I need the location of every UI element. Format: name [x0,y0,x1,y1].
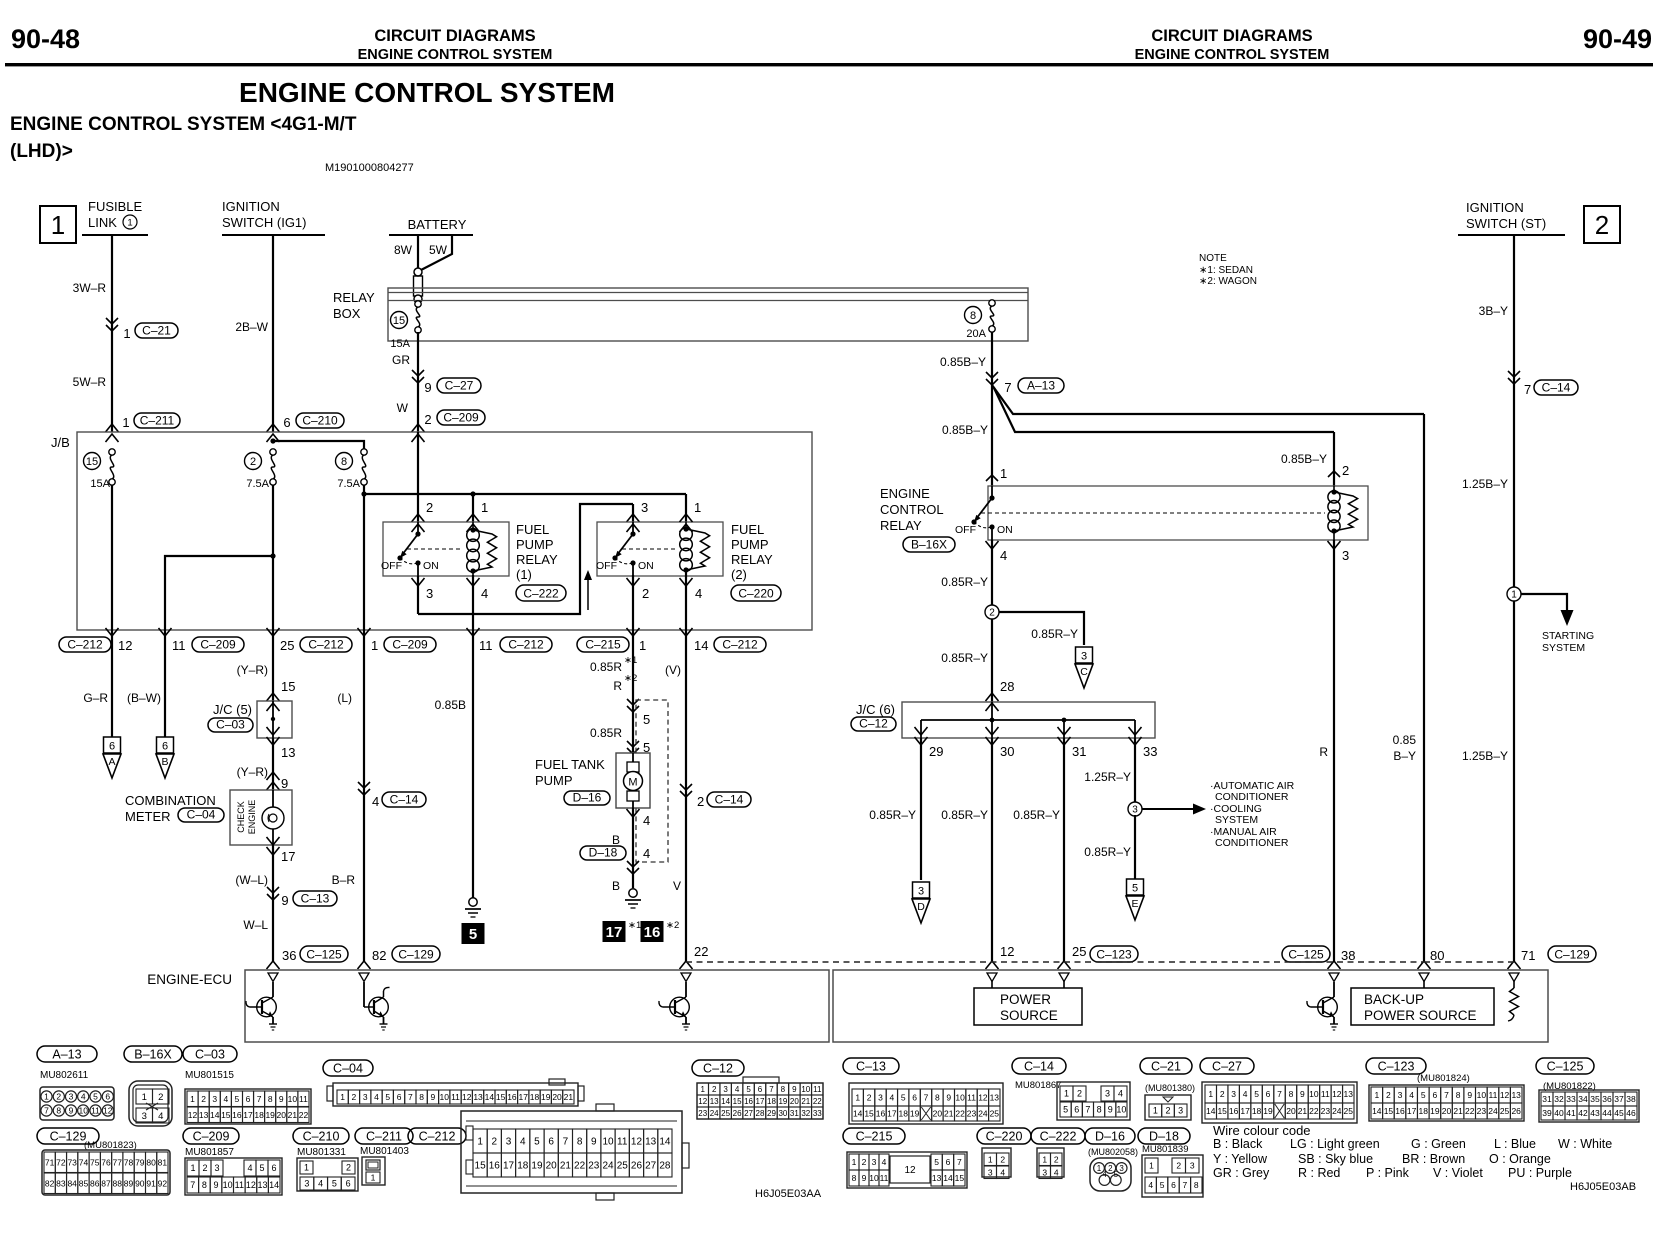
svg-text:ON: ON [423,560,439,572]
svg-text:FUEL: FUEL [731,522,764,537]
svg-text:2: 2 [712,1085,717,1094]
svg-text:0.85B: 0.85B [435,698,466,712]
svg-text:C–212: C–212 [419,1130,456,1144]
wire colour code [1213,1123,1612,1180]
svg-text:3: 3 [1081,651,1087,663]
svg-text:3: 3 [1398,1090,1403,1100]
svg-text:3: 3 [212,1094,217,1104]
svg-text:9: 9 [792,1085,797,1094]
svg-text:18: 18 [254,1110,264,1120]
connector C-220 capsule [731,585,781,601]
svg-text:17: 17 [1407,1106,1417,1116]
svg-text:MU801331: MU801331 [297,1147,346,1158]
branch to starting system [1521,594,1574,626]
connector C-129 pinout [37,1128,170,1195]
svg-text:2: 2 [424,412,431,427]
J/C6 exit 30 to ECU pin 12 [941,727,1014,969]
svg-text:3: 3 [214,1163,219,1173]
fuse 8 7.5A in J/B [336,449,368,490]
wire W into FPR1 pin 2 [412,432,434,532]
svg-text:31: 31 [790,1109,799,1118]
svg-text:7: 7 [563,1137,569,1148]
svg-text:CIRCUIT DIAGRAMS: CIRCUIT DIAGRAMS [1151,27,1312,45]
svg-text:12: 12 [246,1180,256,1190]
svg-text:1: 1 [142,1092,147,1103]
svg-text:7: 7 [1085,1105,1090,1115]
svg-text:2: 2 [697,794,704,809]
svg-text:3: 3 [723,1085,728,1094]
svg-text:3: 3 [988,1167,993,1177]
svg-text:C–13: C–13 [301,892,330,906]
svg-text:8: 8 [419,1092,424,1102]
svg-text:8: 8 [935,1093,940,1103]
svg-text:15: 15 [496,1092,506,1102]
svg-text:26: 26 [1511,1106,1521,1116]
svg-text:C–210: C–210 [303,1130,340,1144]
svg-text:9: 9 [946,1093,951,1103]
svg-text:BR : Brown: BR : Brown [1402,1152,1465,1166]
svg-text:72: 72 [56,1157,66,1167]
svg-text:5: 5 [385,1092,390,1102]
svg-text:14: 14 [853,1109,863,1119]
ECU box left page [245,970,829,1042]
svg-text:12: 12 [904,1165,916,1176]
svg-text:C–220: C–220 [986,1130,1023,1144]
connector C-209 pinout [183,1128,282,1195]
svg-text:23: 23 [588,1161,600,1172]
wire V to ECU pin 22 [665,630,751,969]
svg-text:C–125: C–125 [1288,948,1324,962]
svg-text:24: 24 [978,1109,988,1119]
connector C-125 pinout [1536,1058,1639,1122]
svg-text:12: 12 [631,1137,643,1148]
svg-text:31: 31 [1072,744,1086,759]
svg-text:26: 26 [631,1161,643,1172]
ECU transistor pin22 [659,982,690,1030]
svg-text:17: 17 [606,924,623,941]
fuel pump relay 2 box [597,522,723,576]
svg-text:6: 6 [162,741,168,753]
svg-text:6: 6 [758,1085,763,1094]
svg-text:15: 15 [955,1173,965,1183]
svg-text:RELAY: RELAY [516,552,558,567]
svg-text:C–14: C–14 [715,793,744,807]
svg-text:11: 11 [235,1180,244,1190]
svg-text:C–21: C–21 [142,324,171,338]
svg-text:5: 5 [1114,1170,1119,1179]
svg-text:C–215: C–215 [856,1130,893,1144]
ECU transistor pin38 [1307,982,1338,1030]
svg-text:9: 9 [591,1137,597,1148]
svg-text:28: 28 [756,1109,765,1118]
svg-text:10: 10 [955,1093,965,1103]
svg-text:RELAY: RELAY [880,518,922,533]
svg-text:17: 17 [503,1161,515,1172]
svg-text:CONDITIONER: CONDITIONER [1215,837,1289,849]
svg-text:2: 2 [867,1093,872,1103]
svg-text:21: 21 [1453,1106,1463,1116]
svg-text:PUMP: PUMP [535,773,573,788]
svg-text:14: 14 [721,1097,730,1106]
svg-text:ENGINE CONTROL SYSTEM: ENGINE CONTROL SYSTEM [1135,47,1330,63]
svg-text:ENGINE CONTROL SYSTEM: ENGINE CONTROL SYSTEM [239,77,615,108]
svg-text:25: 25 [1344,1106,1354,1116]
junction connector J/C(6) [902,702,1155,738]
svg-text:22: 22 [955,1109,965,1119]
svg-text:MU801515: MU801515 [185,1070,234,1081]
svg-text:92: 92 [158,1178,168,1188]
svg-text:90: 90 [135,1178,145,1188]
svg-text:(W–L): (W–L) [235,873,268,887]
svg-text:3: 3 [142,1111,147,1122]
svg-text:C–21: C–21 [1151,1060,1181,1074]
svg-text:0.85R–Y: 0.85R–Y [941,575,988,589]
svg-text:2: 2 [1176,1161,1181,1171]
svg-text:11: 11 [299,1094,308,1104]
drawing code AB [1570,1181,1636,1193]
svg-text:C–03: C–03 [216,718,245,732]
svg-text:1: 1 [1374,1090,1379,1100]
svg-text:G : Green: G : Green [1411,1137,1466,1151]
svg-text:25: 25 [1500,1106,1510,1116]
svg-text:(1): (1) [516,567,532,582]
svg-text:1.25R–Y: 1.25R–Y [1084,770,1131,784]
wire fusible link 3W-R/5W-R [106,235,119,442]
connector C-21 pinout [1140,1058,1195,1120]
svg-text:0.85R–Y: 0.85R–Y [869,808,916,822]
chassis ground under pump [625,889,641,908]
svg-text:PUMP: PUMP [516,537,554,552]
svg-text:87: 87 [101,1178,111,1188]
svg-text:13: 13 [1511,1090,1521,1100]
svg-text:37: 37 [1614,1094,1624,1104]
svg-text:20: 20 [1442,1106,1452,1116]
svg-text:CIRCUIT DIAGRAMS: CIRCUIT DIAGRAMS [374,27,535,45]
svg-text:C–125: C–125 [306,948,342,962]
svg-text:27: 27 [645,1161,657,1172]
svg-text:FUEL: FUEL [516,522,549,537]
svg-text:19: 19 [1430,1106,1440,1116]
svg-text:10: 10 [1477,1090,1487,1100]
svg-text:14: 14 [485,1092,495,1102]
J/B exit 1 C-215 [577,628,646,653]
svg-text:90-48: 90-48 [11,24,80,54]
svg-text:O : Orange: O : Orange [1489,1152,1551,1166]
connector C-212 pinout [408,1104,689,1200]
connector C-215 pinout [843,1128,967,1188]
svg-text:6: 6 [346,1179,351,1189]
note sedan/wagon [1199,253,1257,287]
svg-text:15: 15 [281,679,295,694]
check engine text [236,800,257,835]
svg-text:29: 29 [929,744,943,759]
connector C-210 pinout [293,1128,358,1191]
svg-text:C–123: C–123 [1378,1060,1415,1074]
svg-text:1: 1 [190,1094,195,1104]
svg-text:10: 10 [1309,1089,1319,1099]
svg-text:C–211: C–211 [366,1130,402,1144]
svg-text:4: 4 [223,1094,228,1104]
J/C(5) label [208,702,253,732]
J/C6 exit 31 to ECU pin 25 [1013,727,1086,969]
svg-text:23: 23 [1477,1106,1487,1116]
svg-text:6: 6 [548,1137,554,1148]
svg-text:27: 27 [744,1109,753,1118]
svg-text:MU801867: MU801867 [1015,1080,1061,1091]
svg-text:15: 15 [393,315,405,327]
starting system text [1542,630,1594,654]
svg-text:5: 5 [1132,883,1138,895]
svg-text:8: 8 [577,1137,583,1148]
svg-text:(L): (L) [337,691,352,705]
combination meter box [230,790,292,845]
svg-text:44: 44 [1602,1108,1612,1118]
wire FPR1 pin 1 [467,494,489,532]
svg-text:19: 19 [778,1097,787,1106]
svg-text:1: 1 [1153,1106,1158,1116]
svg-text:1: 1 [371,638,378,653]
svg-text:(Y–R): (Y–R) [237,765,268,779]
svg-text:13: 13 [1344,1089,1354,1099]
svg-text:C–13: C–13 [856,1060,886,1074]
svg-text:5: 5 [1254,1089,1259,1099]
svg-text:C–222: C–222 [523,587,559,601]
wire G-R to triangle A [83,630,121,778]
svg-text:8W: 8W [394,243,413,257]
svg-text:9: 9 [1467,1090,1472,1100]
svg-text:23: 23 [698,1109,707,1118]
FPR1 pin 3 wire to FPR2 pin 3 [412,500,649,614]
svg-text:(MU801380): (MU801380) [1145,1083,1195,1093]
svg-text:FUSIBLE: FUSIBLE [88,199,143,214]
svg-text:6: 6 [1266,1089,1271,1099]
svg-text:(Y–R): (Y–R) [237,663,268,677]
svg-text:3B–Y: 3B–Y [1479,304,1508,318]
label W [397,401,409,415]
wire GR/W to J/B [412,332,425,442]
svg-text:GR: GR [392,353,410,367]
svg-text:ENGINE-ECU: ENGINE-ECU [147,972,232,987]
svg-text:7: 7 [1277,1089,1282,1099]
ground ref box 5 [462,923,485,944]
svg-text:ENGINE CONTROL SYSTEM <4G1-M/T: ENGINE CONTROL SYSTEM <4G1-M/T [10,114,357,135]
ECU pin 36 C-125 [282,946,348,963]
svg-text:D–18: D–18 [589,846,618,860]
svg-text:36: 36 [1602,1094,1612,1104]
svg-text:METER: METER [125,809,171,824]
svg-text:1: 1 [123,326,130,341]
connector C-211 pin 1 [122,413,180,430]
svg-text:23: 23 [967,1109,977,1119]
ECR coil and resistor [1328,486,1358,540]
svg-text:11: 11 [479,638,493,653]
connector C-220 pinout [977,1128,1031,1179]
svg-text:14: 14 [1206,1106,1216,1116]
svg-text:Wire colour code: Wire colour code [1213,1123,1311,1138]
svg-text:11: 11 [617,1137,628,1148]
ECR pin 2 number [1342,463,1349,478]
svg-text:6: 6 [1171,1180,1176,1190]
svg-text:16: 16 [744,1097,753,1106]
wire branch to ECU pin 80 [992,385,1424,962]
svg-text:3: 3 [506,1137,512,1148]
svg-text:2: 2 [56,1092,61,1102]
svg-text:13: 13 [990,1093,1000,1103]
svg-text:7: 7 [1444,1090,1449,1100]
svg-text:3: 3 [1178,1106,1183,1116]
svg-text:3: 3 [872,1157,877,1167]
connector C-13 pinout [843,1058,1003,1124]
svg-text:13: 13 [710,1097,719,1106]
svg-text:0.85R: 0.85R [590,660,622,674]
svg-text:5W–R: 5W–R [73,375,107,389]
svg-text:80: 80 [146,1157,156,1167]
branch to ground triangle C [999,612,1093,688]
svg-text:1: 1 [340,1092,345,1102]
svg-text:C: C [1080,666,1088,678]
svg-text:20A: 20A [966,328,986,340]
J/C6 exit 29 to triangle D [869,727,943,923]
svg-text:20: 20 [546,1161,558,1172]
svg-text:22: 22 [574,1161,586,1172]
svg-text:1: 1 [481,500,488,515]
svg-text:10: 10 [439,1092,449,1102]
svg-text:33: 33 [1566,1094,1576,1104]
svg-text:2: 2 [158,1092,163,1103]
fusible link holder [414,268,423,303]
svg-text:81: 81 [158,1157,168,1167]
svg-text:0.85R–Y: 0.85R–Y [1084,845,1131,859]
svg-text:22: 22 [813,1097,822,1106]
svg-text:IGNITION: IGNITION [222,199,280,214]
right header title [1135,27,1330,63]
svg-text:17: 17 [887,1109,897,1119]
svg-text:8: 8 [341,456,347,468]
svg-text:40: 40 [1554,1108,1564,1118]
fuse 15 15A in J/B [84,449,116,490]
svg-text:ON: ON [638,560,654,572]
svg-text:J/C (6): J/C (6) [856,702,895,717]
svg-text:5: 5 [1421,1090,1426,1100]
FPR1 switch [381,522,461,576]
svg-text:31: 31 [1542,1094,1552,1104]
svg-text:8: 8 [1194,1180,1199,1190]
svg-text:POWER SOURCE: POWER SOURCE [1364,1008,1477,1023]
wire B below pump to ground [580,808,650,893]
svg-text:3: 3 [1190,1161,1195,1171]
svg-text:5W: 5W [429,243,448,257]
svg-text:83: 83 [56,1178,66,1188]
svg-text:2: 2 [201,1094,206,1104]
J/B exit 12 C-212 [59,628,132,653]
main title [239,77,615,108]
svg-text:C–125: C–125 [1547,1060,1584,1074]
svg-text:C–209: C–209 [443,411,479,425]
svg-text:85: 85 [79,1178,89,1188]
engine control relay box [988,486,1368,540]
svg-text:11: 11 [813,1085,822,1094]
svg-text:38: 38 [1341,948,1355,963]
connector C-04 pinout [323,1060,584,1106]
label GR [392,353,410,367]
svg-text:ENGINE: ENGINE [880,486,930,501]
svg-text:RELAY: RELAY [731,552,773,567]
svg-text:7.5A: 7.5A [246,478,269,490]
wire to engine control relay pin 1 [986,385,998,486]
svg-text:4: 4 [1102,1170,1107,1179]
svg-text:MU801857: MU801857 [185,1147,234,1158]
svg-text:3: 3 [1119,1164,1124,1173]
svg-text:6: 6 [246,1094,251,1104]
svg-text:10: 10 [288,1094,298,1104]
wire 0.85R-Y to ground triangle E [1084,815,1144,920]
svg-text:84: 84 [67,1178,77,1188]
J/C(6) label [851,702,896,731]
svg-text:OFF: OFF [596,560,617,572]
svg-text:10: 10 [1116,1105,1126,1115]
svg-text:V : Violet: V : Violet [1433,1166,1483,1180]
svg-text:1: 1 [122,415,129,430]
svg-text:4: 4 [520,1137,526,1148]
wire B-W to triangle B [127,630,174,778]
svg-text:20: 20 [1286,1106,1296,1116]
header rule [5,63,1653,66]
svg-text:2: 2 [426,500,433,515]
svg-text:C–12: C–12 [859,717,888,731]
svg-text:MU802611: MU802611 [40,1070,89,1081]
svg-text:1: 1 [855,1093,860,1103]
label 2B-W [235,320,268,334]
svg-text:16: 16 [489,1161,501,1172]
FPR1 coil and resistor [467,522,497,576]
svg-text:3: 3 [1231,1089,1236,1099]
junction 2 [985,605,999,619]
FPR2 switch [596,522,676,576]
svg-text:5: 5 [93,1092,98,1102]
svg-text:C–209: C–209 [392,638,428,652]
svg-text:18: 18 [1252,1106,1262,1116]
svg-text:1: 1 [1000,466,1007,481]
svg-text:34: 34 [1578,1094,1588,1104]
svg-text:A–13: A–13 [52,1048,81,1062]
svg-text:1: 1 [694,500,701,515]
junction connector J/C(5) [257,701,292,738]
svg-text:21: 21 [560,1161,572,1172]
svg-text:15: 15 [733,1097,742,1106]
svg-text:A–13: A–13 [1027,379,1055,393]
svg-text:C–03: C–03 [195,1048,225,1062]
svg-text:13: 13 [932,1173,942,1183]
svg-text:3: 3 [1132,805,1138,816]
AC systems text [1210,780,1295,849]
connector C-12 pinout [692,1060,823,1119]
svg-text:14: 14 [1372,1106,1382,1116]
svg-text:4: 4 [643,813,650,828]
svg-text:SB : Sky blue: SB : Sky blue [1298,1152,1373,1166]
svg-text:76: 76 [101,1157,111,1167]
connector C-27 pinout [1200,1058,1357,1123]
svg-text:GR : Grey: GR : Grey [1213,1166,1270,1180]
svg-text:OFF: OFF [381,560,402,572]
ECU pin 38 C-125 [1282,946,1355,963]
svg-text:19: 19 [541,1092,551,1102]
svg-text:17: 17 [1240,1106,1250,1116]
svg-text:C–212: C–212 [508,638,544,652]
svg-text:1: 1 [1149,1161,1154,1171]
svg-text:2: 2 [1342,463,1349,478]
connector C-209 pin 2 [424,410,485,427]
svg-text:4: 4 [882,1157,887,1167]
